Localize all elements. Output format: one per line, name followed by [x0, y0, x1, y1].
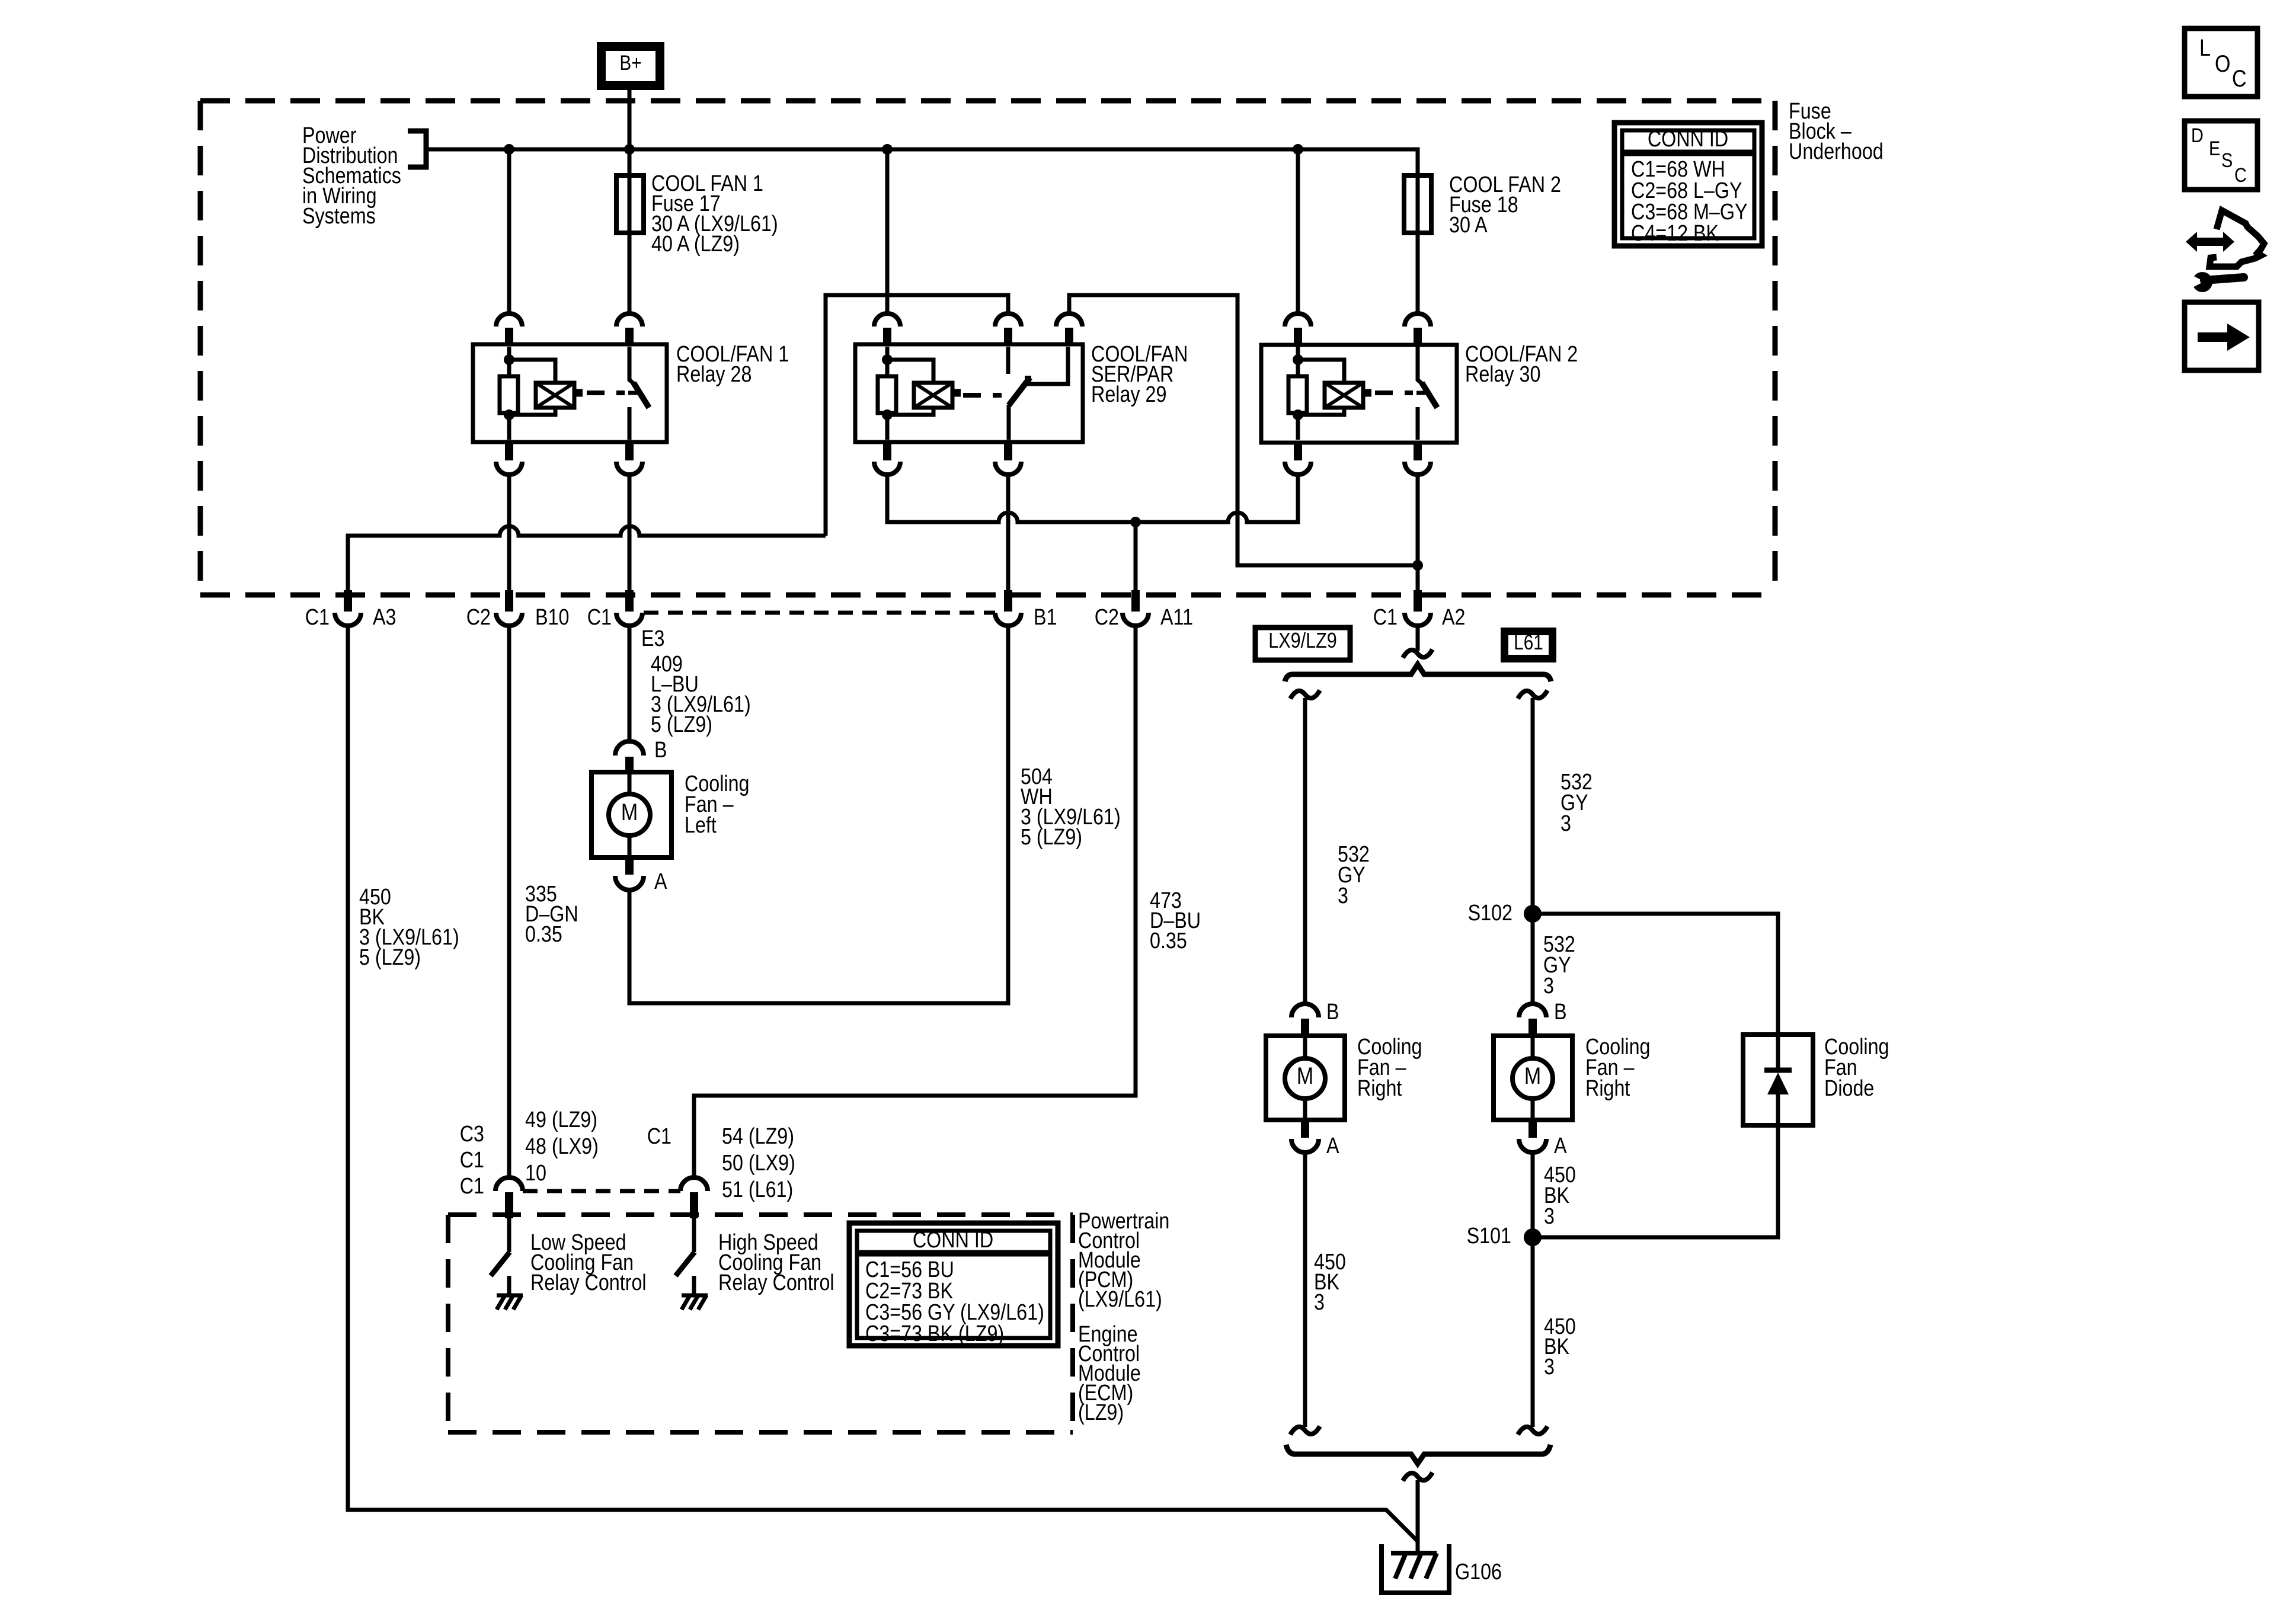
wire A11 feed down to boundary [1134, 522, 1138, 590]
svg-text:CONN ID: CONN ID [913, 1228, 993, 1253]
svg-text:0.35: 0.35 [1150, 929, 1187, 953]
wire 450 BK from A3 to ground run [348, 626, 1418, 1541]
svg-text:M: M [1297, 1062, 1313, 1089]
svg-text:Relay 29: Relay 29 [1091, 382, 1166, 407]
motor M circle right fan (L61) [1531, 1036, 1535, 1058]
junction dot at A2 feed [1412, 560, 1423, 571]
svg-text:S101: S101 [1467, 1224, 1511, 1249]
motor M cooling fan left box [591, 772, 671, 857]
wire 335 D-GN from B10 to PCM low speed pin [507, 626, 511, 1178]
wire node loop to A3 with hops over B10 and E3 [348, 526, 826, 590]
wire relay 29 switch top loop [826, 295, 1008, 536]
relay 29 coil resistor [878, 376, 896, 413]
relay 29 connector bottom coil pin [883, 442, 891, 460]
relay K29 COOL/FAN SER/PAR box [855, 344, 1083, 442]
relay 29 aux contact wire [1026, 347, 1068, 384]
svg-text:D: D [2191, 124, 2204, 147]
relay 30 connector bottom coil pin [1294, 442, 1302, 460]
relay 30 coil junction dot bottom [1293, 409, 1303, 420]
break symbol LX9/LZ9 branch start [1290, 690, 1320, 699]
svg-text:3: 3 [1314, 1290, 1325, 1315]
bus junction dot at relay30 coil feed [1293, 144, 1303, 155]
wire relay 28 coil out to B10 connector [507, 476, 511, 590]
relay 28 actuator dashed link [587, 391, 625, 395]
low speed relay control switch [507, 1218, 511, 1252]
break symbol L61 branch start [1518, 690, 1547, 699]
svg-text:C1: C1 [460, 1148, 484, 1173]
relay 28 coil wire bottom [507, 412, 511, 440]
svg-text:B: B [1326, 1000, 1339, 1025]
svg-text:0.35: 0.35 [525, 922, 562, 947]
svg-text:Right: Right [1357, 1076, 1402, 1101]
svg-text:48 (LX9): 48 (LX9) [525, 1134, 599, 1159]
diode wire through box [1776, 1035, 1780, 1070]
wire relay 29 coil out + relay 30 coil out rail with hops [887, 476, 1298, 522]
icon double arrow [2186, 232, 2234, 252]
svg-text:C1: C1 [647, 1124, 671, 1149]
bus junction dot at fuse 17 [624, 144, 635, 155]
bus junction dot at relay29 coil feed [882, 144, 893, 155]
wire relay 28 switch out to E3 connector [628, 476, 632, 590]
relay 29 connector arc top switch pin [995, 313, 1021, 327]
svg-text:A: A [1554, 1134, 1567, 1158]
relay 28 solenoid box (X symbol) [536, 383, 574, 408]
relay 30 solenoid box (X symbol) [1325, 383, 1363, 408]
relay 29 connector bottom switch pin [1004, 442, 1012, 460]
ground G106 box [1382, 1544, 1449, 1593]
svg-text:C: C [2232, 65, 2247, 91]
svg-text:A11: A11 [1160, 605, 1193, 630]
relay 28 connector arc top coil pin [496, 313, 522, 327]
svg-text:40 A (LZ9): 40 A (LZ9) [651, 232, 740, 257]
junction dot at A11 feed [1130, 517, 1141, 527]
low speed switch ground lead [507, 1276, 511, 1295]
dotted connector line C1 E3 to B1 [644, 611, 995, 615]
relay 30 switch fixed contact top [1418, 347, 1422, 384]
wire 532 GY LX9/LZ9 branch down to right fan B [1303, 698, 1307, 1004]
relay 30 connector bottom switch pin [1414, 442, 1422, 460]
power terminal B+ box [597, 42, 664, 90]
connector arc PCM low speed pin [495, 1177, 523, 1191]
relay 29 switch blade [1009, 377, 1030, 405]
svg-text:G106: G106 [1455, 1560, 1502, 1585]
connector arc pin B right fan (L61) [1519, 1004, 1546, 1017]
wire B+ power bus [426, 149, 1418, 175]
ground symbol (low speed) [497, 1294, 523, 1298]
svg-text:Relay 28: Relay 28 [676, 362, 752, 387]
svg-text:S102: S102 [1468, 901, 1512, 926]
svg-text:Relay Control: Relay Control [530, 1270, 647, 1295]
svg-text:50 (LX9): 50 (LX9) [722, 1151, 795, 1176]
connector arc pin A right fan (LX9/LZ9) [1301, 1120, 1309, 1138]
svg-text:CONN ID: CONN ID [1648, 127, 1728, 152]
relay 28 solenoid actuator stub [574, 389, 583, 397]
svg-text:E3: E3 [641, 626, 664, 651]
svg-text:Diode: Diode [1824, 1076, 1874, 1101]
relay 29 connector arc top coil pin [874, 313, 900, 327]
connector C1 pin A2 [1414, 590, 1422, 612]
cooling fan diode D1 box [1743, 1035, 1813, 1125]
svg-text:S: S [2221, 149, 2233, 172]
icon wrench [2192, 272, 2212, 292]
svg-text:C1: C1 [305, 605, 330, 630]
svg-text:(LX9/L61): (LX9/L61) [1078, 1287, 1162, 1312]
svg-text:C3: C3 [460, 1122, 484, 1147]
svg-text:B: B [1554, 1000, 1567, 1025]
ground G106 chassis symbol [1391, 1551, 1437, 1555]
svg-text:E: E [2209, 137, 2220, 160]
diode symbol cathode bar [1764, 1068, 1792, 1073]
engine option overbrace [1285, 664, 1551, 681]
wire fuse 18 to relay 30 switch [1416, 233, 1420, 315]
svg-text:C1: C1 [460, 1174, 484, 1199]
relay 28 coil resistor [500, 376, 518, 413]
relay 28 coil parallel loop wire [509, 360, 555, 384]
wire B+ feed down to bus [628, 90, 632, 149]
svg-text:49 (LZ9): 49 (LZ9) [525, 1108, 597, 1132]
relay 29 switch fixed contact top [1006, 347, 1011, 374]
fuse F17 [616, 175, 644, 233]
connector pin B1 [1004, 590, 1012, 612]
svg-text:O: O [2215, 50, 2230, 76]
svg-text:B: B [654, 738, 667, 763]
relay 29 coil parallel loop wire [887, 360, 933, 384]
relay 29 coil wire top [885, 347, 890, 377]
relay 30 solenoid actuator stub [1363, 389, 1371, 397]
wire ground lead to G106 [1416, 1480, 1420, 1553]
relay 29 connector arc top aux pin [1056, 313, 1082, 327]
relay 29 solenoid actuator stub [952, 389, 961, 397]
wire fuse 17 to relay 28 switch [628, 233, 632, 315]
wire bus to fuse 18 [1416, 149, 1420, 178]
svg-text:54 (LZ9): 54 (LZ9) [722, 1124, 794, 1149]
connector arc pin A right fan (L61) [1528, 1120, 1537, 1138]
PCM low speed pin stub [505, 1192, 513, 1218]
relay 30 coil resistor [1288, 376, 1307, 413]
option box LX9/LZ9 [1255, 628, 1350, 660]
relay 30 coil wire bottom [1296, 412, 1300, 440]
svg-text:A: A [1326, 1134, 1339, 1158]
icon box DESC [2185, 121, 2257, 190]
svg-text:B+: B+ [619, 52, 641, 75]
ground symbol (high speed) [682, 1294, 708, 1298]
svg-text:5 (LZ9): 5 (LZ9) [359, 945, 421, 970]
fuse block underhood dashed box [200, 98, 1775, 104]
svg-text:LX9/LZ9: LX9/LZ9 [1268, 629, 1337, 653]
wire 532 GY L61 branch to S102 [1531, 698, 1535, 914]
svg-text:3: 3 [1544, 1204, 1555, 1229]
relay 28 switch fixed contact bottom [628, 407, 632, 440]
svg-text:A: A [654, 869, 667, 894]
svg-text:5 (LZ9): 5 (LZ9) [651, 712, 712, 737]
high speed relay control switch [692, 1218, 696, 1252]
splice S101 [1524, 1228, 1542, 1246]
wire A2 connector tail [1416, 626, 1420, 651]
relay 28 coil junction dot bottom [504, 409, 514, 420]
svg-text:M: M [621, 798, 638, 825]
relay 28 switch blade [634, 383, 649, 408]
motor M circle right fan (LX9/LZ9) [1303, 1036, 1307, 1058]
svg-text:Systems: Systems [302, 204, 376, 229]
relay K30 COOL/FAN 2 box [1261, 345, 1457, 443]
wire bus to relay 30 coil [1296, 149, 1300, 315]
relay 28 connector bottom coil pin [505, 442, 513, 460]
relay 29 solenoid box (X symbol) [914, 383, 952, 408]
relay 29 coil wire bottom [885, 412, 890, 440]
wire right fan L61 pin A to S101 [1531, 1153, 1535, 1237]
relay 29 coil junction dot bottom [882, 409, 893, 420]
fuse F18 [1404, 175, 1431, 233]
relay 29 switch pivot bottom [1007, 405, 1011, 440]
svg-text:B1: B1 [1034, 605, 1057, 630]
svg-text:Relay Control: Relay Control [718, 1270, 834, 1295]
wire diode to S101 [1533, 1125, 1778, 1237]
bracket to power distribution schematics [408, 131, 426, 167]
svg-text:3: 3 [1560, 811, 1571, 836]
relay 30 switch contact tick [1416, 391, 1428, 395]
high speed switch ground lead [692, 1276, 696, 1295]
wire bus to fuse 17 [628, 149, 632, 178]
wire 409 L-BU from E3 to left fan [628, 626, 632, 742]
relay 30 actuator dashed link [1375, 391, 1413, 395]
svg-text:Right: Right [1585, 1076, 1630, 1101]
svg-text:A3: A3 [373, 605, 396, 630]
relay 28 switch contact tick [628, 391, 640, 395]
ground return underbrace [1286, 1445, 1550, 1464]
svg-text:10: 10 [525, 1161, 546, 1186]
break symbol above ground lead [1403, 1473, 1432, 1481]
wire relay 29 switch out to B1 connector [1006, 476, 1011, 590]
dotted connector line between PCM pins [523, 1189, 680, 1193]
svg-text:3: 3 [1543, 974, 1554, 998]
relay 28 coil junction dot top [504, 354, 514, 365]
svg-text:C1: C1 [587, 605, 612, 630]
relay 30 connector arc top coil pin [1285, 313, 1311, 327]
wire S102 down to right fan B (L61) [1531, 914, 1535, 1004]
connector arc PCM high speed pin [680, 1177, 708, 1191]
connector C1 pin E3 [625, 590, 634, 612]
CONN ID table (fuse block) [1614, 123, 1762, 246]
bus junction dot at relay28 coil feed [504, 144, 514, 155]
svg-text:51 (L61): 51 (L61) [722, 1177, 793, 1202]
diode symbol anode triangle [1767, 1073, 1789, 1094]
svg-text:C4=12 BK: C4=12 BK [1631, 221, 1719, 246]
relay 30 switch blade [1422, 383, 1437, 408]
connector C2 pin B10 [505, 590, 513, 612]
svg-text:C3=73 BK (LZ9): C3=73 BK (LZ9) [865, 1321, 1004, 1346]
splice S102 [1524, 905, 1542, 923]
svg-text:C: C [2234, 164, 2247, 187]
svg-text:B10: B10 [535, 605, 569, 630]
wire 473 D-BU from A11 to PCM high speed pin [694, 626, 1136, 1178]
wire bus to relay 28 coil [507, 149, 511, 315]
relay 28 connector arc top switch pin [616, 313, 642, 327]
relay 28 coil wire top [507, 347, 511, 377]
break symbol below A2 [1403, 649, 1432, 658]
icon box LOC [2185, 28, 2257, 97]
icon vehicle outline [2209, 210, 2264, 267]
PCM high speed pin stub [690, 1192, 698, 1218]
svg-text:30 A: 30 A [1449, 213, 1488, 238]
motor M circle (fan left) [628, 772, 632, 795]
wire right fan LX9/LZ9 pin A down [1303, 1153, 1307, 1427]
connector C2 pin A11 [1131, 590, 1140, 612]
wire bus to relay 29 coil [885, 149, 890, 315]
relay 28 switch fixed contact top [629, 347, 634, 384]
svg-text:C1: C1 [1373, 605, 1398, 630]
powertrain control module dashed box [448, 1212, 1073, 1217]
motor M cooling fan right box right fan (LX9/LZ9) [1266, 1036, 1345, 1120]
svg-text:3: 3 [1338, 884, 1348, 908]
svg-text:L61: L61 [1514, 631, 1543, 654]
svg-text:5 (LZ9): 5 (LZ9) [1021, 825, 1082, 850]
wire relay 30 switch bottom to A2 connector [1416, 476, 1420, 590]
svg-text:C2: C2 [1095, 605, 1119, 630]
relay 30 coil parallel loop wire [1298, 360, 1344, 384]
icon box arrow (next page) [2185, 302, 2259, 370]
connector arc pin B right fan (LX9/LZ9) [1291, 1004, 1319, 1017]
connector arc pin B cooling fan left [615, 741, 644, 756]
relay 30 coil wire top [1296, 347, 1300, 377]
relay 30 connector arc top switch pin [1405, 313, 1431, 327]
connector C1 pin A3 [344, 590, 352, 612]
break symbol end of L61 fan return [1518, 1426, 1547, 1435]
wire relay 29 aux pin loop to A2 node [1069, 295, 1418, 565]
motor M cooling fan right box right fan (L61) [1494, 1036, 1572, 1120]
svg-text:L: L [2199, 34, 2211, 60]
option box L61 [1501, 628, 1556, 662]
break symbol end of LX9/LZ9 fan return [1290, 1426, 1320, 1435]
svg-text:Underhood: Underhood [1789, 139, 1884, 164]
relay 30 coil junction dot top [1293, 354, 1303, 365]
wire S102 to cooling fan diode [1533, 914, 1778, 1035]
svg-text:Relay 30: Relay 30 [1465, 362, 1540, 387]
connector arc pin A cooling fan left [625, 857, 634, 875]
relay 29 coil junction dot top [882, 354, 893, 365]
svg-text:A2: A2 [1442, 605, 1465, 630]
relay K28 COOL/FAN 1 box [473, 344, 667, 442]
svg-text:(LZ9): (LZ9) [1078, 1400, 1124, 1425]
svg-text:C2: C2 [466, 605, 491, 630]
relay 29 actuator dashed link [963, 393, 1002, 398]
svg-text:Left: Left [685, 813, 717, 838]
relay 30 switch fixed contact bottom [1416, 407, 1420, 440]
svg-text:M: M [1524, 1062, 1541, 1089]
relay 28 connector bottom switch pin [625, 442, 634, 460]
wire 504 WH from B1 to left fan pin A [629, 626, 1008, 1003]
svg-text:3: 3 [1544, 1355, 1555, 1379]
CONN ID table (PCM) [849, 1223, 1058, 1346]
wire S101 down to return [1531, 1237, 1535, 1427]
